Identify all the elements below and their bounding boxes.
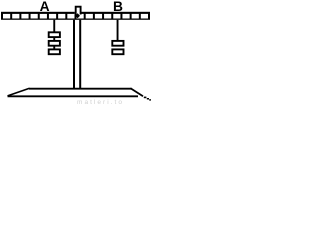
string at B (117, 20, 119, 42)
base right slant (131, 88, 144, 96)
string at A (53, 20, 55, 50)
weights at A (3) (49, 32, 60, 54)
ruler beam (1, 12, 150, 20)
svg-text:matleri.to: matleri.to (77, 99, 122, 106)
base bottom edge (8, 95, 139, 97)
base top edge (29, 88, 132, 90)
base right slant dashed tail (144, 97, 151, 101)
weights at B (2) (112, 41, 123, 54)
base left slant (8, 88, 30, 96)
pivot point diamond on beam center (75, 13, 80, 18)
stand column (two uprights) (73, 20, 81, 89)
pivot clamp block on top of beam (75, 6, 82, 15)
background (0, 0, 151, 107)
